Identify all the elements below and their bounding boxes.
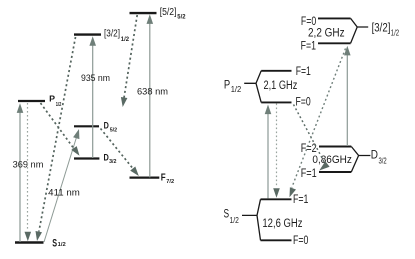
wire [3/2] F=1 -> S F=1 decay dotted diagonal (right) (292, 49, 346, 188)
svg-text:D: D (104, 120, 110, 130)
wire 935nm excitation D3/2->[3/2] (92, 41, 94, 158)
wire P->S decay dotted (27, 103, 29, 230)
level F_7/2 (left) (130, 177, 160, 179)
level S_1/2 (left) (15, 241, 44, 243)
bracket D group (351, 147, 370, 173)
svg-text:3/2: 3/2 (109, 159, 116, 165)
svg-text:1/2: 1/2 (121, 37, 130, 43)
wire 411nm excitation S->D5/2 (44, 134, 78, 242)
bracket S group (242, 199, 261, 240)
arrowhead [3/2]->S down (right) (290, 187, 297, 197)
svg-text:F=1: F=1 (301, 168, 317, 180)
svg-text:1/2: 1/2 (231, 85, 242, 94)
level [5/2]_5/2 (left) (130, 12, 157, 14)
level [3/2]_1/2 (left) (74, 33, 101, 35)
wire 935nm repump D F=2 -> [3/2] F=1 (right) (346, 50, 348, 146)
svg-text:F=0: F=0 (296, 97, 311, 109)
arrowhead repump up (right) (344, 46, 351, 56)
wire [3/2]->S decay dashed (39, 37, 76, 232)
svg-text:411 nm: 411 nm (48, 188, 80, 198)
svg-text:D: D (371, 149, 378, 161)
wire P->D3/2 decay dashed (41, 103, 77, 152)
level D F=1 (right) (319, 171, 351, 173)
svg-text:[3/2]: [3/2] (372, 23, 391, 35)
svg-text:[3/2]: [3/2] (104, 29, 120, 40)
level D_5/2 (left) (74, 125, 99, 127)
svg-text:5/2: 5/2 (177, 15, 186, 21)
svg-text:638 nm: 638 nm (137, 87, 168, 97)
level P_1/2 (left) (18, 100, 45, 102)
wire P F=0 -> D F=1 decay dashed (right) (294, 105, 325, 163)
arrowhead P->D3/2 (71, 146, 79, 156)
level P F=1 (right) (261, 70, 291, 72)
wire D5/2->F7/2 decay dashed (101, 129, 135, 171)
arrowhead 369nm up (17, 103, 24, 113)
wire 638nm excitation F7/2->[5/2] (149, 20, 151, 178)
wire 369nm excitation S F=1 -> P F=0 (right) (267, 109, 269, 199)
svg-text:S: S (224, 209, 230, 221)
svg-text:[5/2]: [5/2] (160, 7, 177, 18)
arrowhead P->S down (25, 232, 32, 242)
svg-text:2,1 GHz: 2,1 GHz (264, 80, 298, 92)
level S F=0 (right) (261, 239, 292, 241)
svg-text:S: S (52, 237, 57, 249)
svg-text:0,86GHz: 0,86GHz (312, 154, 352, 166)
svg-text:12,6 GHz: 12,6 GHz (262, 218, 302, 230)
arrowhead [5/2]->D down (121, 97, 128, 107)
svg-text:F=1: F=1 (301, 40, 316, 52)
wire P F=0 -> S F=1 decay dotted (right) (276, 104, 278, 188)
svg-text:F=0: F=0 (293, 235, 308, 247)
svg-text:1/2: 1/2 (230, 216, 240, 225)
level [3/2] F=0 (right) (318, 17, 351, 19)
svg-text:1/2: 1/2 (56, 102, 62, 108)
wire 369nm excitation S->P (19, 107, 21, 242)
svg-text:935 nm: 935 nm (81, 73, 110, 83)
arrowhead 411nm up (73, 129, 79, 139)
arrowhead 638nm up (147, 14, 154, 24)
arrowhead 935nm up (89, 36, 96, 46)
level P F=0 (right) (261, 101, 291, 103)
arrowhead P->S down (right) (273, 188, 280, 198)
svg-text:F=1: F=1 (293, 194, 308, 206)
level [3/2] F=1 (right) (318, 42, 351, 44)
arrowhead P->D F=1 (right) (319, 161, 329, 170)
level D_3/2 (left) (74, 157, 99, 159)
arrowhead 369 right up (265, 105, 272, 115)
level D F=2 (right) (319, 146, 351, 148)
bracket P group (244, 71, 261, 103)
arrowhead [3/2]->S down (36, 231, 43, 241)
svg-text:P: P (224, 79, 231, 91)
bracket [3/2] group (351, 18, 369, 43)
svg-text:7/2: 7/2 (166, 179, 174, 185)
svg-text:5/2: 5/2 (110, 127, 117, 133)
svg-text:3/2: 3/2 (379, 157, 388, 166)
svg-text:2,2 GHz: 2,2 GHz (308, 28, 345, 40)
svg-text:F: F (161, 173, 166, 184)
svg-text:F=0: F=0 (301, 16, 316, 28)
svg-text:P: P (49, 94, 55, 104)
level S F=1 (right) (261, 198, 292, 200)
svg-text:F=1: F=1 (296, 66, 311, 78)
arrowhead D5/2->F7/2 (130, 167, 139, 177)
svg-text:1/2: 1/2 (391, 28, 400, 37)
wire [5/2]->D decay dashed (124, 15, 137, 99)
svg-text:1/2: 1/2 (58, 242, 66, 248)
